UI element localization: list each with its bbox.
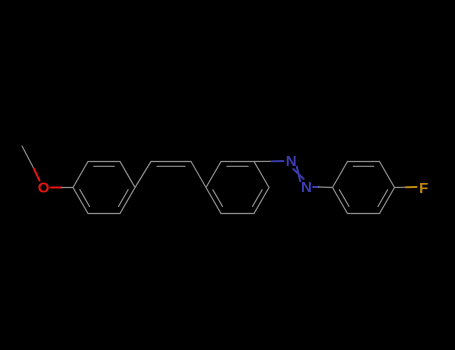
vinylene bond ring1-C1	[135, 162, 151, 188]
ring3-F bond (carbon half)	[395, 186, 409, 188]
methyl CH3-O bond (oxygen half)	[34, 169, 40, 181]
methyl CH3-O bond (carbon half)	[22, 146, 34, 169]
ring3-F bond (fluorine half)	[406, 186, 417, 188]
svg-text:N: N	[286, 153, 297, 170]
benzene ring 1 (methoxyphenyl)	[73, 162, 135, 214]
vinylene C1=C2 bond	[151, 161, 191, 163]
benzene ring 2 (central phenylene)	[206, 162, 269, 214]
benzene ring 3 (fluorophenyl)	[333, 162, 395, 214]
ring2-N1 bond (nitrogen half)	[272, 160, 284, 162]
vinylene bond C2-ring2	[191, 162, 206, 188]
svg-text:F: F	[419, 180, 428, 197]
ring2-N1 bond (carbon half)	[254, 160, 272, 162]
ring 1 inner double bond lower-left	[80, 190, 90, 207]
ring 2 inner double bond lower-right	[253, 190, 263, 207]
ring 1 inner double bond lower-right	[119, 190, 129, 207]
svg-text:N: N	[301, 179, 312, 196]
ring 2 inner double bond top	[227, 165, 248, 167]
azo N1=N2 crossed double bond line a	[293, 169, 303, 179]
ring 3 inner double bond top	[353, 165, 373, 167]
svg-text:O: O	[38, 180, 50, 197]
ring 2 inner double bond lower-left	[213, 190, 223, 207]
O-ring bond (carbon half)	[62, 187, 74, 189]
ring 1 inner double bond top	[94, 165, 114, 167]
N2-ring3 bond (carbon half)	[319, 186, 333, 189]
N2-ring3 bond (nitrogen half)	[313, 186, 319, 188]
O-ring bond (oxygen half)	[51, 187, 62, 189]
azo N1=N2 crossed double bond line b	[297, 167, 300, 182]
vinylene C1=C2 inner line	[157, 165, 185, 167]
ring 3 inner double bond lower-right	[378, 190, 388, 207]
ring 3 inner double bond lower-left	[339, 190, 349, 207]
